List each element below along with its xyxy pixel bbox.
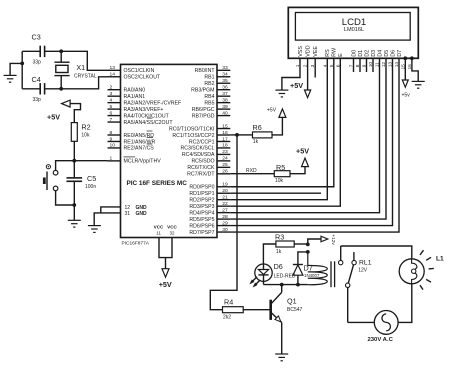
LCD pin 13 D6 label: [390, 50, 396, 57]
svg-text:27: 27: [222, 207, 228, 213]
svg-text:R2: R2: [81, 123, 90, 132]
+5v label at LCD pin 15: [402, 92, 411, 98]
svg-text:35: 35: [222, 78, 228, 84]
svg-text:RA0/AN0: RA0/AN0: [124, 88, 146, 94]
svg-text:RD0/PSP0: RD0/PSP0: [189, 185, 214, 191]
svg-text:1k: 1k: [253, 139, 259, 145]
svg-text:MCLR/Vpp/THV: MCLR/Vpp/THV: [124, 159, 162, 165]
pin 14 OSC2/CLKOUT: [108, 72, 161, 81]
AC source 230V: [374, 311, 398, 335]
pin 27 RD4/PSP4: [189, 207, 230, 216]
node bottom junction: [72, 203, 76, 207]
svg-text:RC3/SCK/SCL: RC3/SCK/SCL: [180, 146, 214, 152]
svg-text:RD7/PSP7: RD7/PSP7: [189, 230, 214, 236]
pin 29 RD6/PSP6: [189, 220, 230, 229]
LCD pin 11 D4 label: [377, 50, 383, 57]
D6 label: [274, 262, 283, 271]
wire LCD D4 to RD4: [230, 58, 379, 212]
pin 4 RA2/AN2/VREF-/CVREF: [108, 97, 182, 106]
svg-text:33p: 33p: [33, 97, 42, 103]
relay contact terminal A: [339, 260, 343, 264]
wire Q1 emitter to ground: [281, 322, 283, 354]
svg-text:RA4/T0CKI/C1OUT: RA4/T0CKI/C1OUT: [124, 113, 170, 119]
wire junction to MCLR pin 1: [74, 160, 107, 162]
LCD pin 5 number: [329, 64, 335, 67]
node MCLR junction: [72, 159, 76, 163]
svg-text:D3: D3: [371, 50, 377, 57]
wire relay pole down: [347, 288, 349, 323]
svg-text:14: 14: [110, 72, 116, 78]
U1 VCC labels: [154, 224, 178, 229]
ground at Q1 emitter: [275, 354, 288, 361]
wire LCD D6 to RD6: [230, 58, 392, 225]
SS overline: [147, 117, 152, 119]
svg-text:+5V: +5V: [267, 108, 277, 114]
wire RC1 pin 16 to R6 junction: [230, 134, 237, 136]
wire LCD RS to RD2: [230, 58, 327, 199]
wire junction to D7 cathode: [298, 252, 308, 265]
svg-text:+5V: +5V: [47, 113, 60, 122]
svg-text:9: 9: [110, 136, 113, 142]
wire R6 junction down to R4: [210, 135, 237, 310]
U1 VCC pin numbers 11 32: [156, 231, 175, 236]
resistor R6: [253, 132, 273, 138]
svg-text:RB2: RB2: [204, 81, 214, 87]
LCD pin 10 number: [368, 62, 374, 68]
svg-text:VSS: VSS: [298, 46, 304, 57]
pin 33 RB0/INT: [195, 65, 231, 74]
svg-text:VDD: VDD: [306, 45, 312, 56]
svg-text:RD4/PSP4: RD4/PSP4: [189, 210, 214, 216]
svg-text:D1: D1: [358, 50, 364, 57]
U1 GND pin 12 wire: [101, 207, 121, 213]
pin 35 RB2: [204, 78, 230, 87]
svg-text:6: 6: [110, 110, 113, 116]
svg-text:18: 18: [222, 143, 228, 149]
pin 30 RD7/PSP7: [189, 227, 230, 236]
LCD pin 8 D1 label: [358, 50, 364, 57]
svg-text:RB6/PGC: RB6/PGC: [192, 107, 215, 113]
pin 7 RA5/AN4/SS/C2OUT: [108, 117, 174, 126]
capacitor C4 wires: [22, 88, 61, 90]
resistor R5: [274, 171, 290, 177]
svg-text:RS: RS: [325, 49, 331, 57]
node crystal top: [59, 49, 63, 53]
D7 value 1N4007: [304, 273, 320, 278]
svg-text:+5V: +5V: [296, 146, 309, 155]
LCD pin 9 D2 label: [364, 50, 370, 57]
svg-text:RA1/AN1: RA1/AN1: [124, 94, 146, 100]
svg-text:LM016L: LM016L: [344, 27, 364, 33]
LCD pin 7 number: [349, 64, 355, 67]
microcontroller U1 PIC16F877A body: [121, 64, 218, 237]
svg-text:L1: L1: [436, 255, 444, 262]
svg-text:VCC: VCC: [154, 224, 164, 229]
push button S1: [44, 165, 58, 191]
relay contact terminal B: [352, 260, 356, 264]
svg-text:RA3/AN3/VREF+: RA3/AN3/VREF+: [124, 107, 164, 113]
R2 value 10k: [81, 133, 90, 139]
ground at LCD pin 16: [412, 81, 425, 88]
svg-text:21: 21: [222, 195, 228, 201]
ground at crystal caps: [4, 75, 17, 82]
relay RL1 coil: [308, 252, 328, 285]
wire junction to ground: [10, 63, 22, 75]
node R6 junction: [235, 133, 239, 137]
svg-text:RB3/PGM: RB3/PGM: [191, 88, 214, 94]
svg-text:PIC 16F SERIES MC: PIC 16F SERIES MC: [127, 180, 188, 187]
wire junction to ground: [73, 205, 75, 220]
svg-text:26: 26: [222, 169, 228, 175]
U1 pin 31 GND label: [125, 211, 148, 217]
svg-text:34: 34: [222, 72, 228, 78]
pin 39 RB6/PGC: [192, 104, 231, 113]
svg-text:20: 20: [222, 188, 228, 194]
LCD1 LM016L display body: [288, 7, 418, 58]
svg-text:R5: R5: [276, 163, 285, 172]
LCD pin 9 number: [362, 64, 368, 67]
svg-text:C5: C5: [87, 174, 96, 183]
node LCD pin 16: [410, 56, 414, 60]
C4 label: [32, 75, 41, 84]
svg-text:RXD: RXD: [246, 168, 257, 174]
svg-text:RE2/AN7/CS: RE2/AN7/CS: [124, 146, 155, 152]
svg-text:C4: C4: [32, 75, 41, 84]
wire VCC pins to +5V: [159, 238, 172, 271]
ground at LCD VSS: [275, 90, 288, 97]
LCD VEE stub: [314, 58, 316, 77]
relay contact terminal B stub: [353, 252, 355, 260]
U1 pin 12 GND label: [125, 205, 148, 211]
svg-text:GND: GND: [136, 211, 148, 217]
LCD pin 8 number: [355, 64, 361, 67]
svg-text:E: E: [338, 53, 344, 57]
+5V label at R2: [47, 113, 60, 122]
svg-text:BC547: BC547: [287, 307, 303, 313]
svg-text:33: 33: [222, 65, 228, 71]
RL1 label: [359, 260, 372, 267]
wire R4 to Q1 base: [243, 309, 269, 311]
svg-text:CRYSTAL: CRYSTAL: [74, 74, 97, 80]
pin 26 RC7/RX/DT: [187, 169, 230, 178]
C4 value 33p: [33, 97, 42, 103]
svg-text:RE1/AN6/WR: RE1/AN6/WR: [124, 139, 156, 145]
svg-text:22: 22: [222, 201, 228, 207]
svg-text:R4: R4: [224, 297, 233, 306]
relay contact pole C: [346, 283, 350, 287]
LCD pin 1 number: [295, 64, 301, 67]
svg-text:16: 16: [222, 130, 228, 136]
pin 8 RE0/AN5/RD: [108, 130, 155, 139]
pin 10 RE2/AN7/CS: [108, 143, 155, 152]
crystal X1: [54, 62, 69, 75]
LCD pin 1 VSS label: [298, 46, 304, 57]
+5V power arrow at R5: [302, 158, 309, 167]
wire LCD D5 to RD5: [230, 58, 386, 219]
R5 value 10k: [275, 178, 284, 184]
svg-text:15: 15: [222, 123, 228, 129]
+12v label: [330, 234, 336, 245]
svg-text:RA5/AN4/SS/C2OUT: RA5/AN4/SS/C2OUT: [124, 120, 174, 126]
RL1 value 12V: [358, 267, 368, 273]
capacitor C4: [40, 83, 44, 94]
relay RL1 core: [331, 261, 335, 287]
node D7-coil junction: [306, 250, 310, 254]
svg-text:OSC1/CLKIN: OSC1/CLKIN: [124, 68, 155, 74]
svg-text:1k: 1k: [276, 249, 282, 255]
svg-text:2: 2: [110, 85, 113, 91]
svg-text:D2: D2: [364, 50, 370, 57]
LCD pin 2 VDD label: [306, 45, 312, 56]
capacitor C3: [40, 46, 44, 57]
node R3 +12v junction: [306, 243, 310, 247]
R3 value 1k: [276, 249, 282, 255]
svg-text:37: 37: [222, 91, 228, 97]
svg-text:3: 3: [110, 91, 113, 97]
pin 34 RB1: [204, 72, 230, 81]
svg-text:1: 1: [110, 156, 113, 162]
capacitor C3 wires: [22, 50, 61, 52]
wire RD1: [230, 192, 321, 194]
wire LCD pin 15 to +5v: [404, 58, 406, 80]
svg-text:RC7/RX/DT: RC7/RX/DT: [187, 172, 215, 178]
LCD pin 10 D3 label: [371, 50, 377, 57]
D7 label: [304, 263, 313, 272]
C3 label: [32, 33, 41, 42]
svg-text:RD2/PSP2: RD2/PSP2: [189, 198, 214, 204]
svg-text:1N4007: 1N4007: [304, 273, 320, 278]
svg-text:D4: D4: [377, 50, 383, 57]
svg-text:+5V: +5V: [290, 81, 303, 90]
svg-text:+5V: +5V: [159, 280, 172, 289]
node D7 anode rail junction: [296, 283, 300, 287]
svg-text:Q1: Q1: [287, 297, 297, 306]
svg-text:D6: D6: [390, 50, 396, 57]
wire crystal bottom lead: [60, 76, 62, 89]
LCD pin 12 D5 label: [384, 50, 390, 57]
pin 9 RE1/AN6/WR: [108, 136, 156, 145]
wire junction to C5: [73, 161, 75, 178]
+5V power arrow at R6: [279, 109, 286, 118]
+5V label below U1: [159, 280, 172, 289]
LCD pin 4 number: [322, 64, 328, 67]
svg-text:RB5: RB5: [204, 100, 214, 106]
LCD1 screen: [295, 13, 410, 41]
lamp L1: [399, 259, 424, 284]
230V A.C label: [368, 337, 394, 343]
svg-text:39: 39: [222, 104, 228, 110]
node crystal bottom: [59, 87, 63, 91]
svg-text:RD1/PSP1: RD1/PSP1: [189, 191, 214, 197]
svg-text:RD3/PSP3: RD3/PSP3: [189, 204, 214, 210]
capacitor C5: [67, 178, 83, 181]
R3 label: [275, 232, 284, 241]
U1 part name PIC16F877A: [122, 241, 150, 247]
R6 value 1k: [253, 139, 259, 145]
LCD pin 6 number: [335, 64, 341, 67]
LED D6: [255, 264, 272, 281]
wire LCD VSS to ground: [282, 58, 300, 90]
pin 13 OSC1/CLKIN: [108, 65, 155, 74]
LED D6 emission arrows: [250, 277, 260, 287]
LCD pin 13 number: [388, 62, 394, 68]
pin 17 RC2/CCP1: [189, 136, 230, 145]
resistor R2: [71, 123, 77, 142]
pin 37 RB4: [204, 91, 230, 100]
pin 3 RA1/AN1: [108, 91, 146, 100]
LCD pin 16 number: [407, 64, 413, 70]
pin 19 RD0/PSP0: [189, 182, 230, 191]
pin 18 RC3/SCK/SCL: [180, 143, 230, 152]
+5V power arrow below U1: [162, 269, 169, 278]
LCD pin 2 number: [303, 64, 309, 67]
relay armature: [348, 265, 353, 283]
wire LCD E to RD3: [230, 58, 340, 206]
X1 label: [76, 63, 85, 72]
MCLR overline: [124, 156, 136, 158]
svg-text:RC2/CCP1: RC2/CCP1: [189, 139, 215, 145]
pin 1 MCLR/Vpp/THV: [108, 156, 162, 165]
resistor R3: [276, 241, 294, 247]
svg-text:D0: D0: [351, 50, 357, 57]
svg-text:10k: 10k: [81, 133, 90, 139]
RXD net label: [246, 168, 257, 174]
wire LCD RW to RD0: [230, 58, 333, 186]
svg-text:29: 29: [222, 220, 228, 226]
svg-text:10: 10: [110, 143, 116, 149]
wire RC7 pin 26 RXD to R5: [230, 173, 274, 175]
pin 23 RC4/SDI/SDA: [182, 149, 230, 158]
svg-text:8: 8: [110, 130, 113, 136]
LCD pin 7 D0 label: [351, 50, 357, 57]
+5V power arrow at LCD VDD: [304, 90, 310, 98]
pin 5 RA3/AN3/VREF+: [108, 104, 164, 113]
transistor Q1 BC547: [271, 300, 282, 323]
R6 label: [253, 123, 262, 132]
LCD pin 15 number: [400, 64, 406, 70]
svg-text:D7: D7: [397, 50, 403, 57]
svg-text:PIC16F877A: PIC16F877A: [122, 241, 150, 247]
svg-text:RC5/SDO: RC5/SDO: [191, 159, 214, 165]
wire button bottom to junction: [56, 191, 75, 205]
svg-text:RA2/AN2/VREF-/CVREF: RA2/AN2/VREF-/CVREF: [124, 100, 182, 106]
svg-text:7: 7: [110, 117, 113, 123]
svg-text:30: 30: [222, 227, 228, 233]
wire crystal top to OSC1 pin 13: [61, 51, 107, 70]
pin 25 RC6/TX/CK: [187, 162, 230, 171]
wire top rail to lamp: [341, 246, 412, 258]
node LCD pin 15: [403, 56, 407, 60]
R4 value 2k2: [223, 315, 231, 321]
svg-text:28: 28: [222, 214, 228, 220]
svg-text:RB0/INT: RB0/INT: [195, 68, 216, 74]
svg-text:RC0/T1OSO/T1CKI: RC0/T1OSO/T1CKI: [169, 126, 215, 132]
R6 wires: [237, 117, 282, 134]
pin 15 RC0/T1OSO/T1CKI: [169, 123, 230, 132]
svg-text:+12v: +12v: [330, 234, 336, 245]
LCD D2 stub: [366, 58, 368, 72]
ground at C5: [68, 220, 81, 227]
+5v power arrow at LCD pin 15: [402, 80, 408, 87]
LCD1 label: [342, 17, 367, 28]
LCD pin 11 number: [375, 62, 381, 67]
wire junction to +12v arrow: [308, 239, 322, 244]
RD overline: [147, 130, 153, 132]
svg-text:RD6/PSP6: RD6/PSP6: [189, 223, 214, 229]
wire crystal top lead: [60, 51, 62, 62]
R5 wires: [290, 167, 305, 174]
wire rail to relay contact A: [340, 246, 342, 260]
diode D7 1N4007: [293, 265, 303, 285]
pin 20 RD1/PSP1: [189, 188, 230, 197]
node collector rail junction: [280, 283, 284, 287]
L1 label: [436, 255, 444, 262]
svg-text:17: 17: [222, 136, 228, 142]
+5V label at LCD VDD: [290, 81, 303, 90]
svg-text:RB7/PGD: RB7/PGD: [192, 113, 215, 119]
wire R2 to MCLR junction: [73, 141, 75, 160]
svg-text:X1: X1: [76, 63, 85, 72]
svg-text:4: 4: [110, 97, 113, 103]
svg-text:24: 24: [222, 156, 228, 162]
pin 36 RB3/PGM: [191, 85, 230, 94]
wire junction to button top: [56, 161, 75, 171]
LCD D1 stub: [359, 58, 361, 72]
svg-text:+5v: +5v: [402, 92, 411, 98]
svg-text:12V: 12V: [358, 267, 368, 273]
svg-text:LED-RED: LED-RED: [274, 273, 296, 279]
svg-text:D5: D5: [384, 50, 390, 57]
svg-text:VCC: VCC: [167, 224, 177, 229]
Q1 value BC547: [287, 307, 303, 313]
svg-text:R3: R3: [275, 232, 284, 241]
svg-text:100n: 100n: [85, 184, 96, 190]
U1 GND pin 31 wire: [94, 213, 120, 226]
svg-text:33p: 33p: [33, 60, 42, 66]
L1 rays: [420, 250, 434, 289]
pin 22 RD3/PSP3: [189, 201, 230, 210]
pin 2 RA0/AN0: [108, 85, 146, 94]
C5 label: [87, 174, 96, 183]
LCD pin 14 number: [394, 62, 400, 68]
LCD pin 3 VEE label: [313, 46, 319, 57]
LCD D0 stub: [353, 58, 355, 72]
svg-text:D6: D6: [274, 262, 283, 271]
wire R3 left to LED D6: [263, 244, 276, 264]
LCD pin 14 D7 label: [397, 50, 403, 57]
wire C5 to bottom junction: [73, 181, 75, 205]
svg-text:OSC2/CLKOUT: OSC2/CLKOUT: [124, 75, 161, 81]
ground at U1 GND pins: [88, 226, 101, 233]
svg-text:RL1: RL1: [359, 260, 372, 267]
LCD pin 5 RW label: [332, 47, 338, 57]
svg-text:RW: RW: [332, 47, 338, 57]
node C3-C4-ground junction: [20, 62, 24, 66]
svg-text:RE0/AN5/RD: RE0/AN5/RD: [124, 133, 155, 139]
pin 40 RB7/PGD: [192, 110, 231, 119]
svg-text:19: 19: [222, 182, 228, 188]
svg-text:RC4/SDI/SDA: RC4/SDI/SDA: [182, 152, 215, 158]
LCD1 value LM016L: [344, 27, 364, 33]
wire AC source to relay pole: [348, 321, 375, 323]
wire LCD D7 to RD7: [230, 58, 399, 232]
wire crystal bottom to OSC2 pin 14: [61, 77, 107, 89]
+5V label at R5: [296, 146, 309, 155]
wire lamp to AC source: [398, 284, 412, 322]
wire LCD VDD to +5V: [307, 58, 309, 91]
+5V label at R6: [267, 108, 277, 114]
wire Q1 collector: [271, 285, 282, 304]
